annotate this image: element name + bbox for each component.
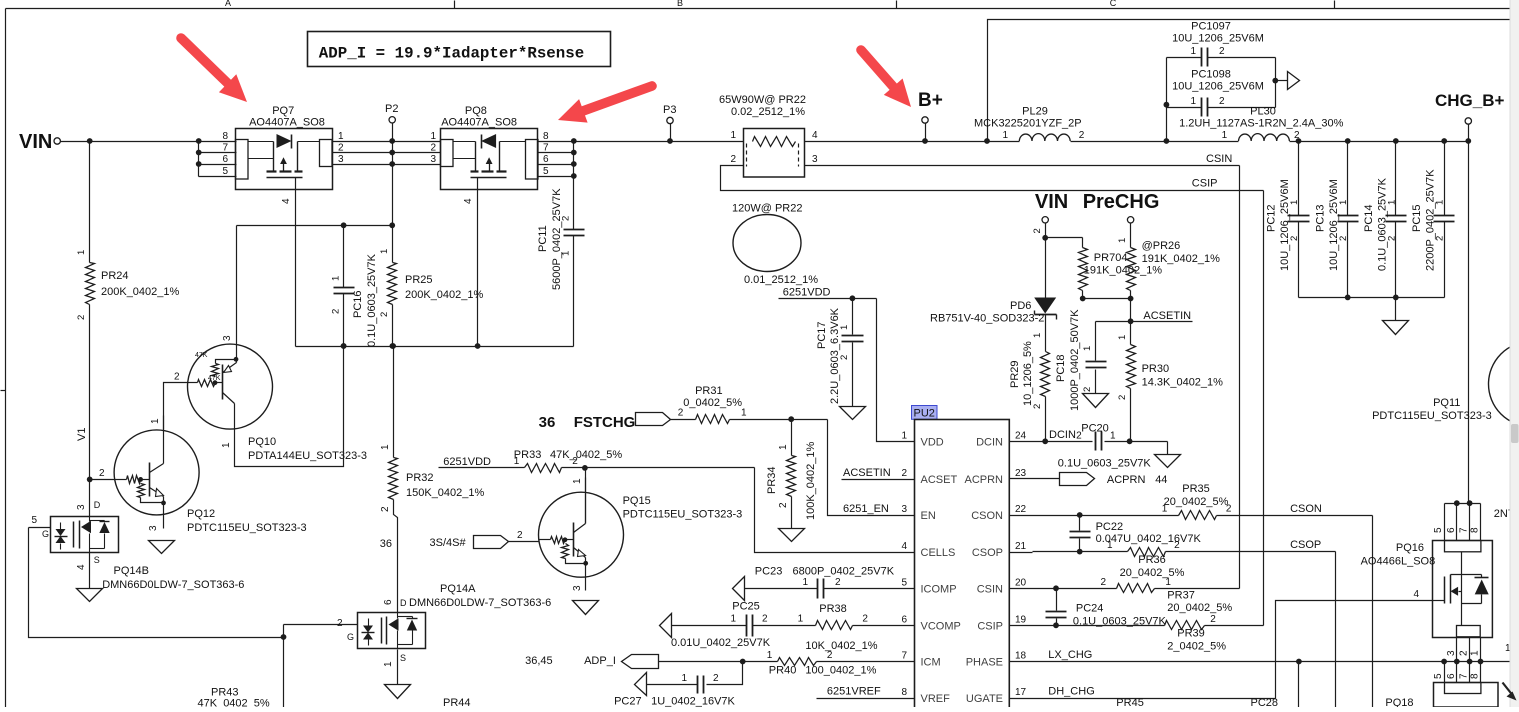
- svg-text:EN: EN: [921, 510, 936, 522]
- svg-text:S: S: [94, 555, 100, 565]
- svg-text:3: 3: [812, 154, 818, 165]
- svg-text:PQ15: PQ15: [623, 495, 651, 507]
- svg-text:1: 1: [778, 444, 789, 450]
- svg-text:MCK3225201YZF_2P: MCK3225201YZF_2P: [974, 118, 1082, 130]
- svg-text:0_0402_5%: 0_0402_5%: [683, 397, 742, 409]
- svg-text:5: 5: [1433, 527, 1444, 533]
- svg-text:0.01U_0402_25V7K: 0.01U_0402_25V7K: [671, 637, 771, 649]
- svg-text:1: 1: [1082, 346, 1093, 351]
- svg-text:1: 1: [1032, 333, 1043, 338]
- svg-text:5: 5: [901, 577, 907, 588]
- svg-text:CSIP: CSIP: [1192, 178, 1218, 190]
- svg-text:18: 18: [1015, 651, 1027, 662]
- svg-text:7: 7: [1459, 527, 1470, 533]
- svg-text:1: 1: [331, 276, 342, 281]
- svg-text:2: 2: [1101, 577, 1107, 588]
- svg-text:PC12: PC12: [1266, 204, 1278, 232]
- svg-text:21: 21: [1015, 541, 1027, 552]
- svg-text:C: C: [1110, 0, 1117, 8]
- svg-text:6: 6: [543, 154, 549, 165]
- svg-text:6251VREF: 6251VREF: [827, 686, 881, 698]
- svg-text:PQ18: PQ18: [1385, 697, 1413, 707]
- svg-text:47K: 47K: [208, 375, 221, 382]
- svg-text:PHASE: PHASE: [966, 657, 1003, 669]
- svg-text:1: 1: [901, 430, 907, 441]
- svg-text:1: 1: [1117, 238, 1128, 243]
- svg-text:PQ14A: PQ14A: [440, 583, 476, 595]
- svg-text:PC22: PC22: [1096, 521, 1124, 533]
- svg-text:2: 2: [174, 372, 180, 383]
- svg-text:PL30: PL30: [1250, 106, 1276, 118]
- svg-text:CELLS: CELLS: [921, 547, 956, 559]
- svg-text:ADP_I: ADP_I: [584, 655, 616, 667]
- svg-text:G: G: [42, 529, 49, 539]
- svg-text:2: 2: [337, 618, 343, 629]
- svg-text:1: 1: [1165, 577, 1171, 588]
- svg-text:PC24: PC24: [1076, 603, 1104, 615]
- svg-text:3: 3: [430, 154, 436, 165]
- svg-text:0.1U_0603_25V7K: 0.1U_0603_25V7K: [1058, 458, 1152, 470]
- svg-text:100K_0402_1%: 100K_0402_1%: [805, 441, 817, 520]
- svg-text:0.1U_0603_25V7K: 0.1U_0603_25V7K: [366, 253, 378, 347]
- svg-text:FSTCHG: FSTCHG: [574, 414, 636, 431]
- svg-text:5: 5: [1433, 673, 1444, 679]
- svg-text:PC25: PC25: [732, 601, 760, 613]
- svg-text:2: 2: [1210, 614, 1216, 625]
- svg-text:2: 2: [678, 408, 684, 419]
- svg-text:ICOMP: ICOMP: [921, 583, 957, 595]
- svg-text:PC18: PC18: [1055, 354, 1067, 382]
- svg-text:PQ8: PQ8: [465, 105, 487, 117]
- svg-text:191K_0402_1%: 191K_0402_1%: [1142, 253, 1221, 265]
- svg-text:14.3K_0402_1%: 14.3K_0402_1%: [1142, 377, 1224, 389]
- svg-text:PQ16: PQ16: [1396, 542, 1424, 554]
- svg-text:65W90W@ PR22: 65W90W@ PR22: [719, 94, 806, 106]
- svg-text:3: 3: [572, 585, 583, 591]
- svg-text:CSIP: CSIP: [977, 620, 1003, 632]
- svg-text:PC17: PC17: [816, 321, 828, 349]
- svg-text:10U_1206_25V6M: 10U_1206_25V6M: [1279, 179, 1291, 271]
- svg-text:2: 2: [862, 614, 868, 625]
- svg-text:CHG_B+: CHG_B+: [1435, 91, 1505, 110]
- svg-text:1: 1: [221, 442, 232, 448]
- svg-text:1: 1: [1002, 130, 1008, 141]
- svg-text:2: 2: [1219, 96, 1225, 107]
- svg-text:4: 4: [901, 541, 907, 552]
- svg-text:1: 1: [681, 673, 687, 684]
- svg-text:47K_0402_5%: 47K_0402_5%: [198, 698, 270, 708]
- svg-text:4: 4: [812, 130, 818, 141]
- svg-text:B: B: [677, 0, 683, 8]
- svg-text:1: 1: [1190, 96, 1196, 107]
- svg-text:2: 2: [835, 577, 841, 588]
- svg-text:DCIN: DCIN: [1049, 429, 1076, 441]
- svg-text:UGATE: UGATE: [966, 693, 1003, 705]
- svg-text:PR44: PR44: [443, 697, 471, 707]
- svg-text:2: 2: [778, 502, 789, 508]
- svg-text:ACPRN: ACPRN: [1107, 474, 1146, 486]
- svg-text:DH_CHG: DH_CHG: [1048, 686, 1094, 698]
- svg-text:200K_0402_1%: 200K_0402_1%: [101, 286, 180, 298]
- svg-text:2: 2: [1117, 395, 1128, 400]
- svg-text:1: 1: [338, 131, 344, 142]
- svg-text:PR40: PR40: [769, 665, 797, 677]
- svg-text:PC16: PC16: [352, 290, 364, 318]
- svg-text:5: 5: [222, 166, 228, 177]
- svg-text:G: G: [347, 632, 354, 642]
- svg-text:1: 1: [1117, 335, 1128, 340]
- svg-text:PDTC115EU_SOT323-3: PDTC115EU_SOT323-3: [187, 522, 307, 534]
- svg-text:PD6: PD6: [1010, 300, 1031, 312]
- svg-text:7: 7: [543, 143, 549, 154]
- svg-text:PR37: PR37: [1167, 590, 1195, 602]
- svg-text:1: 1: [379, 249, 390, 254]
- svg-text:1.2UH_1127AS-1R2N_2.4A_30%: 1.2UH_1127AS-1R2N_2.4A_30%: [1179, 118, 1344, 130]
- svg-text:19: 19: [1015, 614, 1027, 625]
- svg-text:1: 1: [572, 478, 583, 484]
- svg-text:1: 1: [430, 131, 436, 142]
- svg-text:PC11: PC11: [537, 225, 549, 252]
- svg-text:20_0402_5%: 20_0402_5%: [1164, 496, 1229, 508]
- svg-text:ACSET: ACSET: [921, 474, 958, 486]
- svg-text:2: 2: [901, 468, 907, 479]
- svg-text:1: 1: [383, 661, 394, 667]
- svg-text:1: 1: [798, 614, 804, 625]
- svg-text:CSIN: CSIN: [1206, 153, 1232, 165]
- svg-text:PQ12: PQ12: [187, 508, 215, 520]
- svg-text:PC1098: PC1098: [1191, 69, 1231, 81]
- svg-text:20_0402_5%: 20_0402_5%: [1120, 567, 1185, 579]
- svg-text:PR39: PR39: [1177, 628, 1205, 640]
- svg-text:1: 1: [1190, 46, 1196, 57]
- svg-text:1: 1: [1110, 431, 1116, 442]
- svg-text:36,45: 36,45: [525, 655, 553, 667]
- svg-text:22: 22: [1015, 504, 1027, 515]
- svg-text:PR25: PR25: [405, 274, 433, 286]
- svg-text:5600P_0402_25V7K: 5600P_0402_25V7K: [551, 188, 563, 290]
- svg-text:8: 8: [543, 131, 549, 142]
- svg-text:10K_0402_1%: 10K_0402_1%: [805, 640, 877, 652]
- svg-text:10U_1206_25V6M: 10U_1206_25V6M: [1328, 179, 1340, 271]
- svg-text:2: 2: [1079, 130, 1085, 141]
- svg-text:3: 3: [338, 154, 344, 165]
- svg-text:47K_0402_5%: 47K_0402_5%: [550, 449, 622, 461]
- svg-text:2: 2: [430, 143, 436, 154]
- svg-text:PQ14B: PQ14B: [114, 565, 149, 577]
- svg-text:PR24: PR24: [101, 270, 129, 282]
- svg-text:7: 7: [1459, 673, 1470, 679]
- svg-text:20_0402_5%: 20_0402_5%: [1167, 602, 1232, 614]
- svg-text:AO4466L_SO8: AO4466L_SO8: [1361, 556, 1436, 568]
- svg-text:7: 7: [901, 651, 907, 662]
- svg-text:P3: P3: [663, 104, 676, 116]
- svg-text:1: 1: [730, 614, 736, 625]
- svg-text:ACSETIN: ACSETIN: [1143, 310, 1191, 322]
- svg-text:DMN66D0LDW-7_SOT363-6: DMN66D0LDW-7_SOT363-6: [102, 579, 244, 591]
- svg-text:PC23: PC23: [755, 566, 783, 578]
- svg-text:B+: B+: [918, 90, 943, 111]
- svg-text:CSOP: CSOP: [972, 547, 1003, 559]
- svg-text:2: 2: [1219, 46, 1225, 57]
- svg-text:44: 44: [1155, 474, 1167, 486]
- svg-text:2: 2: [380, 506, 391, 512]
- svg-text:1: 1: [741, 408, 747, 419]
- svg-text:VCOMP: VCOMP: [921, 620, 961, 632]
- svg-text:10U_1206_25V6M: 10U_1206_25V6M: [1172, 81, 1264, 93]
- svg-text:2200P_0402_25V7K: 2200P_0402_25V7K: [1425, 169, 1437, 271]
- svg-text:V1: V1: [76, 428, 88, 441]
- svg-text:1: 1: [76, 250, 87, 255]
- svg-text:RB751V-40_SOD323-2: RB751V-40_SOD323-2: [930, 313, 1044, 325]
- svg-text:3: 3: [76, 504, 87, 510]
- svg-text:PR30: PR30: [1142, 363, 1170, 375]
- svg-text:2: 2: [331, 309, 342, 314]
- svg-text:2: 2: [338, 143, 344, 154]
- svg-text:ADP_I = 19.9*Iadapter*Rsense: ADP_I = 19.9*Iadapter*Rsense: [319, 45, 584, 63]
- svg-text:1: 1: [730, 130, 736, 141]
- svg-text:3: 3: [1446, 650, 1457, 656]
- svg-text:8: 8: [222, 131, 228, 142]
- svg-text:120W@ PR22: 120W@ PR22: [732, 203, 802, 215]
- svg-text:2: 2: [762, 614, 768, 625]
- svg-text:0.1U_0603_25V7K: 0.1U_0603_25V7K: [1376, 177, 1388, 271]
- svg-text:4: 4: [463, 198, 474, 204]
- svg-text:6251_EN: 6251_EN: [843, 503, 889, 515]
- svg-text:PDTA144EU_SOT323-3: PDTA144EU_SOT323-3: [248, 450, 367, 462]
- svg-text:0.01_2512_1%: 0.01_2512_1%: [744, 274, 818, 286]
- svg-text:17: 17: [1015, 687, 1027, 698]
- svg-text:2: 2: [517, 530, 523, 541]
- svg-text:A: A: [225, 0, 231, 8]
- svg-text:PR45: PR45: [1116, 697, 1144, 707]
- svg-text:1000P_0402_50V7K: 1000P_0402_50V7K: [1069, 309, 1081, 411]
- svg-text:@PR26: @PR26: [1142, 240, 1181, 252]
- svg-text:PC1097: PC1097: [1191, 21, 1231, 33]
- svg-text:S: S: [400, 653, 406, 663]
- svg-text:4: 4: [281, 198, 292, 204]
- svg-text:1: 1: [150, 418, 161, 424]
- svg-text:2_0402_5%: 2_0402_5%: [1167, 641, 1226, 653]
- svg-text:36: 36: [380, 538, 392, 550]
- svg-text:4: 4: [76, 564, 87, 570]
- svg-text:23: 23: [1015, 468, 1027, 479]
- svg-text:6: 6: [1446, 527, 1457, 533]
- svg-text:PR34: PR34: [766, 466, 778, 494]
- svg-text:PU2: PU2: [914, 408, 935, 420]
- svg-text:5: 5: [31, 515, 37, 526]
- svg-text:2: 2: [713, 673, 719, 684]
- svg-text:36: 36: [539, 414, 556, 431]
- svg-text:PQ10: PQ10: [248, 436, 276, 448]
- svg-text:8: 8: [1470, 673, 1481, 679]
- svg-text:PC20: PC20: [1081, 423, 1109, 435]
- svg-text:6800P_0402_25V7K: 6800P_0402_25V7K: [793, 566, 895, 578]
- svg-text:PR32: PR32: [406, 472, 434, 484]
- svg-text:PC15: PC15: [1411, 204, 1423, 232]
- svg-text:ACPRN: ACPRN: [964, 474, 1003, 486]
- svg-text:CSON: CSON: [1290, 503, 1322, 515]
- svg-text:3: 3: [148, 525, 159, 531]
- svg-text:6: 6: [383, 599, 394, 605]
- svg-text:2: 2: [730, 154, 736, 165]
- svg-text:6: 6: [222, 154, 228, 165]
- svg-text:0.02_2512_1%: 0.02_2512_1%: [731, 106, 805, 118]
- svg-text:24: 24: [1015, 430, 1027, 441]
- svg-text:100_0402_1%: 100_0402_1%: [805, 665, 876, 677]
- svg-text:DMN66D0LDW-7_SOT363-6: DMN66D0LDW-7_SOT363-6: [409, 597, 551, 609]
- svg-text:6251VDD: 6251VDD: [783, 287, 831, 299]
- svg-text:CSON: CSON: [971, 510, 1003, 522]
- svg-text:10U_1206_25V6M: 10U_1206_25V6M: [1172, 33, 1264, 45]
- svg-text:3: 3: [222, 335, 233, 341]
- svg-text:1: 1: [380, 444, 391, 450]
- svg-text:CSOP: CSOP: [1290, 539, 1321, 551]
- svg-text:PDTC115EU_SOT323-3: PDTC115EU_SOT323-3: [623, 509, 743, 521]
- svg-text:2: 2: [379, 312, 390, 317]
- svg-text:200K_0402_1%: 200K_0402_1%: [405, 289, 484, 301]
- svg-text:DCIN: DCIN: [976, 436, 1003, 448]
- svg-text:VIN: VIN: [19, 131, 52, 153]
- svg-text:AO4407A_SO8: AO4407A_SO8: [249, 117, 325, 129]
- svg-text:191K_0402_1%: 191K_0402_1%: [1084, 265, 1163, 277]
- svg-text:PC14: PC14: [1363, 204, 1375, 232]
- svg-text:LX_CHG: LX_CHG: [1048, 649, 1092, 661]
- svg-text:VIN: VIN: [1035, 191, 1068, 213]
- svg-text:PC13: PC13: [1315, 204, 1327, 232]
- svg-text:2: 2: [99, 468, 105, 479]
- svg-text:PC27: PC27: [614, 696, 642, 708]
- svg-text:6: 6: [901, 614, 907, 625]
- svg-text:PR33: PR33: [514, 449, 542, 461]
- svg-text:PR29: PR29: [1009, 360, 1021, 388]
- svg-text:AO4407A_SO8: AO4407A_SO8: [441, 117, 517, 129]
- svg-text:2: 2: [1174, 540, 1180, 551]
- svg-text:3S/4S#: 3S/4S#: [430, 537, 467, 549]
- svg-text:7: 7: [222, 143, 228, 154]
- svg-text:2: 2: [1459, 650, 1470, 656]
- svg-text:PQ7: PQ7: [272, 105, 294, 117]
- svg-text:D: D: [400, 598, 407, 608]
- svg-text:10_1206_5%: 10_1206_5%: [1022, 341, 1034, 406]
- svg-text:1: 1: [1107, 540, 1113, 551]
- svg-text:PQ11: PQ11: [1433, 397, 1460, 409]
- svg-text:PDTC115EU_SOT323-3: PDTC115EU_SOT323-3: [1372, 410, 1492, 422]
- svg-text:PR36: PR36: [1138, 554, 1166, 566]
- svg-text:1U_0402_16V7K: 1U_0402_16V7K: [651, 696, 735, 708]
- svg-text:20: 20: [1015, 577, 1027, 588]
- svg-text:VREF: VREF: [921, 693, 951, 705]
- svg-text:2: 2: [1032, 228, 1043, 233]
- svg-text:1: 1: [802, 577, 808, 588]
- svg-text:2.2U_0603_6.3V6K: 2.2U_0603_6.3V6K: [829, 307, 841, 404]
- svg-text:PR704: PR704: [1094, 252, 1128, 264]
- svg-text:D: D: [94, 500, 101, 510]
- svg-text:PC28: PC28: [1251, 697, 1279, 707]
- svg-text:PL29: PL29: [1022, 106, 1048, 118]
- svg-text:ACSETIN: ACSETIN: [843, 467, 891, 479]
- svg-text:VDD: VDD: [921, 436, 944, 448]
- svg-text:PR38: PR38: [819, 603, 847, 615]
- svg-text:3: 3: [901, 504, 907, 515]
- svg-text:1: 1: [1470, 650, 1481, 656]
- svg-text:P2: P2: [385, 103, 398, 115]
- svg-text:47K: 47K: [195, 352, 208, 359]
- svg-text:2: 2: [1082, 387, 1093, 392]
- svg-text:PR31: PR31: [695, 385, 723, 397]
- svg-text:4: 4: [1413, 589, 1419, 600]
- svg-text:8: 8: [901, 687, 907, 698]
- svg-text:CSIN: CSIN: [977, 583, 1003, 595]
- svg-text:1: 1: [1222, 130, 1228, 141]
- svg-text:5: 5: [543, 166, 549, 177]
- svg-text:6251VDD: 6251VDD: [443, 456, 491, 468]
- svg-text:8: 8: [1470, 527, 1481, 533]
- svg-text:6: 6: [1446, 673, 1457, 679]
- svg-text:ICM: ICM: [921, 657, 941, 669]
- svg-text:1: 1: [767, 650, 773, 661]
- svg-text:2: 2: [76, 315, 87, 320]
- svg-text:PreCHG: PreCHG: [1083, 191, 1160, 213]
- svg-text:150K_0402_1%: 150K_0402_1%: [406, 487, 485, 499]
- svg-text:PR35: PR35: [1182, 483, 1210, 495]
